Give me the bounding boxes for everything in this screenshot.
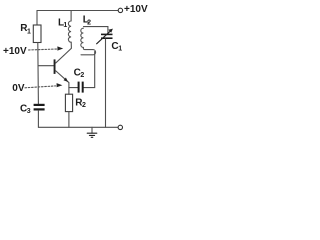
wire L1 bottom lead to collector: [64, 42, 72, 55]
node 0V probe arrow: [25, 86, 56, 88]
svg-text:+10V: +10V: [3, 46, 27, 57]
svg-text:0V: 0V: [12, 83, 25, 94]
wire base lead: [38, 65, 54, 67]
svg-text:+10V: +10V: [124, 4, 148, 15]
transistor Q1 collector: [56, 56, 64, 64]
svg-text:1: 1: [27, 29, 31, 36]
wire top rail: [37, 10, 118, 12]
transistor Q1 emitter: [56, 71, 69, 83]
transistor Q1 base bar: [54, 59, 56, 74]
wire bottom rail: [38, 126, 118, 128]
capacitor C1 plates: [101, 34, 113, 36]
inductor L1: [68, 21, 71, 42]
svg-text:2: 2: [80, 72, 84, 79]
svg-text:2: 2: [87, 20, 91, 27]
resistor R2: [65, 94, 72, 111]
wire base rail (R1 bottom to C3 top): [37, 43, 40, 104]
svg-text:1: 1: [63, 22, 67, 29]
wire L1 top stub: [70, 11, 72, 22]
wire R1 top stub: [36, 11, 38, 26]
capacitor C1 variable arrow: [97, 31, 111, 44]
ground: [91, 127, 93, 133]
wire L2 bottom loop: [81, 47, 96, 54]
node +10V probe arrow: [29, 49, 58, 50]
svg-text:3: 3: [27, 108, 31, 115]
capacitor C2 plates: [78, 82, 80, 93]
wire C1 bottom lead: [105, 39, 107, 127]
svg-text:1: 1: [118, 45, 122, 52]
capacitor C3 plates: [34, 104, 45, 106]
wire emitter to C2: [69, 87, 78, 89]
wire L2 top lead: [84, 26, 108, 28]
wire C3 bottom lead: [37, 111, 39, 128]
svg-text:2: 2: [82, 102, 86, 109]
wire emitter node down to R2: [68, 83, 70, 95]
node +10V supply terminal: [118, 8, 122, 12]
resistor R1: [33, 25, 41, 43]
node output terminal: [118, 125, 122, 129]
wire C1 top lead: [107, 27, 109, 34]
wire R2 bottom lead: [68, 112, 70, 128]
inductor L2: [81, 28, 84, 47]
wire L2 bottom lead down: [84, 52, 95, 88]
